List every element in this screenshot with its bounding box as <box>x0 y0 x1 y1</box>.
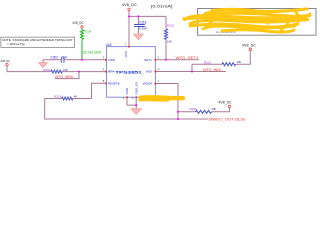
svg-text:0.1uF: 0.1uF <box>139 27 147 31</box>
svg-text:4: 4 <box>158 67 160 71</box>
svg-text:2uF: 2uF <box>62 55 68 59</box>
svg-text:R203: R203 <box>43 68 51 72</box>
svg-text:WDO_OUT 26,36: WDO_OUT 26,36 <box>212 118 245 122</box>
svg-text:4V8_DC: 4V8_DC <box>219 101 233 105</box>
svg-text:WDI: WDI <box>146 70 152 74</box>
svg-text:4V8_DC: 4V8_DC <box>72 21 84 25</box>
svg-text:R206: R206 <box>190 107 198 111</box>
svg-text:SET1: SET1 <box>144 58 152 62</box>
svg-text:TPS3851: TPS3851 <box>115 70 142 74</box>
svg-text:2: 2 <box>103 56 105 60</box>
svg-text:10K: 10K <box>62 68 67 72</box>
svg-text:WDO#: WDO# <box>143 82 152 86</box>
svg-text:5: 5 <box>158 56 160 60</box>
svg-text:4K: 4K <box>74 94 78 98</box>
svg-text:C302: C302 <box>50 55 58 59</box>
svg-text:4V8_DC: 4V8_DC <box>122 3 138 7</box>
svg-text:[0.01mA]: [0.01mA] <box>151 4 173 8</box>
svg-text:8: 8 <box>103 79 105 83</box>
svg-text:R213: R213 <box>204 60 212 64</box>
svg-text:GND_EP: GND_EP <box>135 82 139 94</box>
svg-text:Do Not Stuff: Do Not Stuff <box>83 50 101 54</box>
svg-text:VDD: VDD <box>124 50 128 57</box>
svg-text:C318: C318 <box>139 20 147 24</box>
svg-text:RESET#: RESET# <box>108 81 120 85</box>
svg-text:U18: U18 <box>106 43 112 47</box>
svg-text:10K: 10K <box>211 107 216 111</box>
svg-text:7: 7 <box>158 79 160 83</box>
svg-text:WTD_WDI: WTD_WDI <box>203 68 221 72</box>
svg-text:= 200ms Typ: = 200ms Typ <box>7 42 25 46</box>
svg-text:10K: 10K <box>236 60 241 64</box>
svg-text:R224: R224 <box>84 29 92 33</box>
svg-text:3: 3 <box>103 67 105 71</box>
svg-text:R215: R215 <box>167 24 175 28</box>
svg-text:10K: 10K <box>167 40 172 44</box>
svg-text:1: 1 <box>125 43 127 47</box>
svg-text:R216: R216 <box>54 94 62 98</box>
svg-text:WTD_SET1: WTD_SET1 <box>176 56 199 60</box>
svg-text:4V8_DC: 4V8_DC <box>0 59 10 63</box>
svg-text:GND: GND <box>125 87 129 95</box>
svg-text:CWD: CWD <box>108 58 116 62</box>
svg-text:MR#: MR# <box>108 70 115 74</box>
svg-text:WTD_MR#: WTD_MR# <box>55 75 73 79</box>
svg-text:4V8_DC: 4V8_DC <box>242 43 257 47</box>
